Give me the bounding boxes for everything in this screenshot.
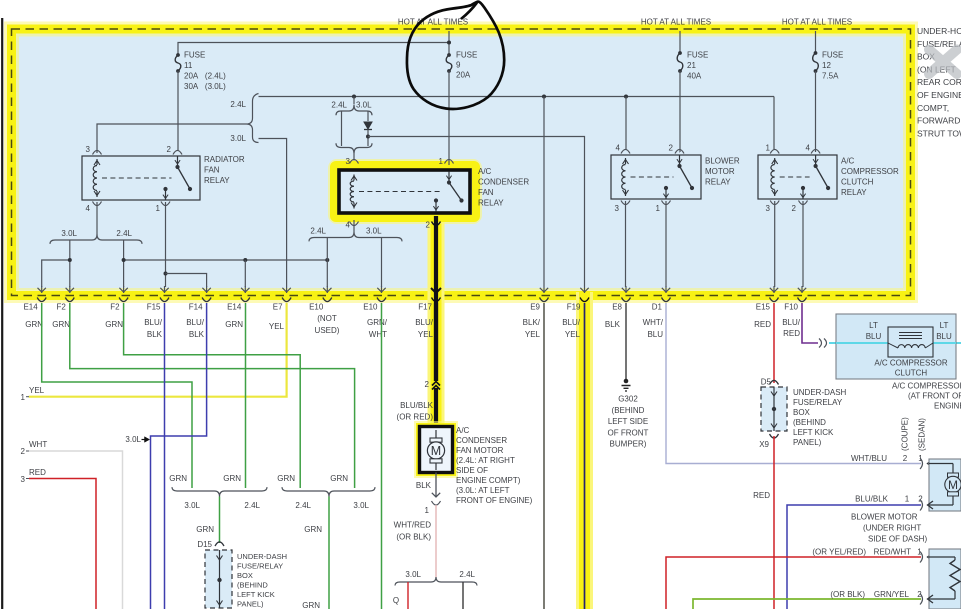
- svg-text:BLU: BLU: [647, 330, 663, 339]
- wire bus B: [124, 259, 328, 261]
- wire motor to pin 1: [435, 473, 437, 498]
- wire node3 red: [29, 479, 96, 609]
- svg-text:30A (3.0L): 30A (3.0L): [184, 82, 226, 91]
- close icon X: [929, 50, 957, 75]
- svg-text:(BEHIND: (BEHIND: [237, 581, 268, 590]
- svg-text:E7: E7: [273, 303, 283, 312]
- svg-text:BLK: BLK: [189, 330, 205, 339]
- svg-text:(BEHIND: (BEHIND: [612, 406, 645, 415]
- svg-text:LEFT SIDE: LEFT SIDE: [608, 417, 648, 426]
- svg-text:1: 1: [21, 393, 26, 402]
- svg-text:(3.0L: AT LEFT: (3.0L: AT LEFT: [456, 486, 510, 495]
- wire bus corner to compressor clutch relay pin 1: [773, 97, 775, 150]
- svg-text:(OR BLK): (OR BLK): [396, 533, 431, 542]
- svg-text:3.0L: 3.0L: [405, 570, 421, 579]
- svg-text:BLOWER: BLOWER: [705, 157, 740, 166]
- node junction E10a: [325, 258, 329, 262]
- wire brace2 green down: [328, 497, 330, 609]
- svg-text:UNDER-DASH: UNDER-DASH: [793, 388, 847, 397]
- svg-text:12: 12: [822, 61, 831, 70]
- svg-text:YEL: YEL: [269, 322, 285, 331]
- svg-text:3: 3: [21, 475, 26, 484]
- connector F10: [798, 298, 807, 302]
- svg-text:FUSE: FUSE: [822, 51, 843, 60]
- svg-text:BUMPER): BUMPER): [610, 440, 647, 449]
- connector F19: [580, 298, 589, 302]
- wire hot feed to fuse 12: [815, 31, 817, 53]
- svg-text:(COUPE): (COUPE): [901, 417, 910, 451]
- wire E7 yellow: [29, 303, 287, 397]
- svg-text:RELAY: RELAY: [478, 199, 504, 208]
- wire branch to F14: [166, 274, 207, 288]
- connector into blower motor 1: [920, 458, 923, 469]
- svg-text:D1: D1: [652, 303, 663, 312]
- svg-text:E14: E14: [23, 303, 38, 312]
- svg-text:(OR RED): (OR RED): [397, 413, 434, 422]
- A/C condenser fan motor highlight: [420, 427, 453, 473]
- svg-text:7.5A: 7.5A: [822, 72, 839, 81]
- svg-text:Q: Q: [393, 596, 399, 605]
- svg-text:BLK: BLK: [605, 320, 621, 329]
- connector F14: [202, 298, 211, 302]
- svg-text:GRN: GRN: [25, 320, 43, 329]
- wire D1 wht/blu: [666, 303, 921, 464]
- wire fuse 21 to blower relay pin 2: [679, 71, 681, 152]
- svg-text:GRN: GRN: [169, 474, 187, 483]
- wire E10 grn/wht: [381, 303, 383, 609]
- svg-text:GRN: GRN: [52, 320, 70, 329]
- svg-text:F2: F2: [56, 303, 66, 312]
- svg-text:RED: RED: [783, 329, 800, 338]
- svg-text:BLU/: BLU/: [415, 318, 434, 327]
- wire to motor: [434, 388, 438, 426]
- connector D1: [662, 298, 671, 302]
- arrow into border at E7: [286, 286, 288, 293]
- svg-text:(NOT: (NOT: [317, 314, 337, 323]
- svg-text:GRN: GRN: [196, 525, 214, 534]
- arrow into border at F15: [164, 286, 166, 293]
- connector pin 1: [432, 501, 441, 505]
- svg-text:ENGINE: ENGINE: [934, 402, 961, 411]
- connector X9: [770, 434, 779, 438]
- svg-text:1: 1: [156, 204, 161, 213]
- svg-text:E10: E10: [363, 303, 378, 312]
- svg-text:3: 3: [615, 204, 620, 213]
- svg-text:2: 2: [792, 204, 797, 213]
- fuse 21: [678, 51, 682, 55]
- svg-text:2.4L: 2.4L: [116, 229, 132, 238]
- under-hood fuse/relay box (blue region): [16, 34, 906, 291]
- svg-text:OF ENGINE: OF ENGINE: [917, 90, 961, 100]
- svg-text:GRN: GRN: [330, 474, 348, 483]
- svg-text:11: 11: [184, 61, 193, 70]
- svg-text:E15: E15: [756, 303, 771, 312]
- svg-text:FUSE/RELAY: FUSE/RELAY: [793, 398, 843, 407]
- node junction blower relay tap: [624, 95, 628, 99]
- svg-text:ENGINE COMPT): ENGINE COMPT): [456, 476, 521, 485]
- wire grn/yel to resistor: [693, 599, 921, 609]
- wire F2a green: [70, 303, 355, 488]
- A/C condenser fan relay highlight box: [334, 165, 476, 218]
- svg-text:3.0L: 3.0L: [61, 229, 77, 238]
- arrow into border at E10: [381, 286, 383, 293]
- svg-text:FORWARD OF: FORWARD OF: [917, 116, 961, 126]
- svg-text:YEL: YEL: [418, 330, 434, 339]
- wire 2.4L black drop: [462, 582, 464, 609]
- thick highlighted wire condenser pin 2 down: [434, 216, 438, 381]
- svg-text:BLK/: BLK/: [523, 318, 541, 327]
- svg-text:BLU/: BLU/: [186, 318, 205, 327]
- svg-text:2: 2: [903, 454, 908, 463]
- svg-text:3.0L: 3.0L: [125, 435, 141, 444]
- svg-text:2.4L: 2.4L: [331, 101, 347, 110]
- svg-text:2.4L: 2.4L: [230, 100, 246, 109]
- svg-text:A/C: A/C: [841, 157, 855, 166]
- wire E14a green: [42, 303, 192, 488]
- svg-text:9: 9: [456, 61, 461, 70]
- svg-text:GRN: GRN: [302, 601, 320, 609]
- svg-text:UNDER-DASH: UNDER-DASH: [237, 552, 287, 561]
- svg-text:SIDE OF: SIDE OF: [456, 466, 488, 475]
- A/C condenser fan relay: [339, 170, 470, 213]
- svg-text:LT: LT: [940, 321, 949, 330]
- svg-text:F14: F14: [189, 303, 203, 312]
- connector into blower motor 2: [920, 500, 923, 511]
- connector E8: [622, 298, 631, 302]
- wire fuse 11 to radiator fan relay pin 2: [177, 71, 179, 150]
- connector E7: [282, 298, 291, 302]
- svg-text:YEL: YEL: [565, 330, 581, 339]
- svg-text:2.4L: 2.4L: [459, 570, 475, 579]
- radiator fan relay: [82, 156, 200, 200]
- svg-text:BLU/: BLU/: [782, 318, 801, 327]
- blower motor box: [929, 459, 961, 511]
- svg-text:BLK: BLK: [147, 330, 163, 339]
- hand-drawn circle around fuse 9: [407, 2, 504, 109]
- svg-text:GRN: GRN: [105, 320, 123, 329]
- node junction E14b: [243, 258, 247, 262]
- svg-text:M: M: [431, 444, 441, 458]
- svg-text:BLOWER MOTOR: BLOWER MOTOR: [851, 513, 918, 522]
- svg-text:E8: E8: [612, 303, 622, 312]
- svg-text:(2.4L: AT RIGHT: (2.4L: AT RIGHT: [456, 456, 515, 465]
- svg-text:E14: E14: [227, 303, 242, 312]
- svg-text:BLU/: BLU/: [562, 318, 581, 327]
- svg-text:WHT/BLU: WHT/BLU: [851, 454, 887, 463]
- arrow into border at F17: [431, 288, 441, 293]
- blower resistor box: [929, 549, 961, 609]
- yellow highlight border of under-hood box: [12, 29, 911, 296]
- svg-text:RED/WHT: RED/WHT: [874, 548, 911, 557]
- svg-text:2: 2: [426, 221, 431, 230]
- svg-text:(SEDAN): (SEDAN): [918, 418, 927, 451]
- svg-text:A/C COMPRESSOR: A/C COMPRESSOR: [892, 382, 961, 391]
- svg-text:4: 4: [86, 204, 91, 213]
- svg-text:3.0L: 3.0L: [184, 501, 200, 510]
- node junction F2a: [68, 258, 72, 262]
- svg-text:FAN: FAN: [478, 188, 494, 197]
- svg-text:RED: RED: [754, 320, 771, 329]
- svg-text:2: 2: [918, 495, 923, 504]
- svg-text:4: 4: [806, 144, 811, 153]
- svg-text:3: 3: [86, 145, 91, 154]
- wire E9 drop: [543, 97, 545, 287]
- radiator output brace 3.0L/2.4L: [50, 235, 142, 244]
- svg-text:3: 3: [346, 157, 351, 166]
- fuse 12: [814, 51, 818, 55]
- svg-text:CLUTCH: CLUTCH: [895, 369, 928, 378]
- svg-text:BLU: BLU: [866, 332, 882, 341]
- svg-text:HOT AT ALL TIMES: HOT AT ALL TIMES: [641, 18, 711, 27]
- wire blower relay pin 4 drop: [625, 97, 627, 150]
- green merge brace 2: [282, 487, 375, 496]
- svg-text:GRN/: GRN/: [367, 318, 388, 327]
- D15 under-dash fuse/relay box: [205, 550, 232, 608]
- svg-text:1: 1: [425, 506, 430, 515]
- svg-text:FRONT OF ENGINE): FRONT OF ENGINE): [456, 496, 533, 505]
- motor ground split brace: [395, 577, 477, 586]
- svg-text:3.0L: 3.0L: [353, 501, 369, 510]
- wire fuse 12 to compressor relay pin 4: [815, 71, 817, 152]
- svg-text:LEFT KICK: LEFT KICK: [237, 590, 275, 599]
- svg-text:(OR BLK): (OR BLK): [830, 590, 865, 599]
- svg-text:E10: E10: [309, 303, 324, 312]
- engine-size split brace (2.4L/3.0L): [247, 94, 259, 143]
- wire E14b green: [245, 303, 247, 488]
- fuse 11: [176, 53, 180, 57]
- wire F10 blu/red purple: [802, 303, 818, 343]
- connector into resistor 1: [920, 552, 923, 563]
- arrow into border at D1: [665, 286, 667, 293]
- svg-text:BOX: BOX: [237, 571, 253, 580]
- arrow into border at E10: [326, 286, 328, 293]
- svg-text:D15: D15: [197, 540, 212, 549]
- svg-text:FUSE: FUSE: [687, 51, 708, 60]
- arrow into border at E9: [543, 286, 545, 293]
- svg-text:UNDER-HOOD: UNDER-HOOD: [917, 26, 961, 36]
- connector F15: [160, 298, 169, 302]
- svg-text:RELAY: RELAY: [841, 188, 867, 197]
- connector E14: [241, 298, 250, 302]
- fuse 9: [447, 53, 451, 57]
- svg-text:YEL: YEL: [29, 386, 45, 395]
- wire diode junction to F19: [368, 137, 585, 287]
- wire E14b drop: [244, 260, 246, 287]
- svg-text:3.0L: 3.0L: [356, 101, 372, 110]
- wire 2.4L branch to F2: [123, 240, 125, 287]
- node junction fuse9 top: [447, 41, 451, 45]
- wire branch to E10 (not used): [326, 238, 328, 261]
- svg-text:HOT AT ALL TIMES: HOT AT ALL TIMES: [782, 18, 852, 27]
- arrow into border at E14: [41, 286, 43, 293]
- svg-text:BLU/BLK: BLU/BLK: [855, 495, 889, 504]
- svg-text:X9: X9: [759, 440, 769, 449]
- arrow into border at F2: [69, 286, 71, 293]
- svg-text:BLK: BLK: [416, 481, 432, 490]
- wire F19 blu/yel: [584, 303, 586, 609]
- svg-text:1: 1: [905, 495, 910, 504]
- svg-text:2: 2: [425, 380, 430, 389]
- svg-text:(AT FRONT OF: (AT FRONT OF: [908, 392, 961, 401]
- svg-text:E9: E9: [530, 303, 540, 312]
- svg-text:RELAY: RELAY: [204, 176, 230, 185]
- svg-text:REAR CORNER: REAR CORNER: [917, 77, 961, 87]
- wire condenser pin 4 to brace: [353, 220, 355, 232]
- svg-text:GRN: GRN: [225, 320, 243, 329]
- arrow into border at E8: [625, 286, 627, 293]
- svg-text:GRN: GRN: [304, 525, 322, 534]
- svg-text:BLU/: BLU/: [144, 318, 163, 327]
- svg-text:(OR YEL/RED): (OR YEL/RED): [812, 548, 866, 557]
- connector E9: [540, 298, 549, 302]
- connector F17: [432, 298, 441, 302]
- wire E15 red lower: [773, 436, 775, 609]
- svg-text:GRN/YEL: GRN/YEL: [874, 590, 910, 599]
- wire lt blu to compressor clutch: [829, 342, 961, 344]
- wire 2.4L branch: [341, 111, 343, 146]
- green merge brace 1: [172, 487, 267, 496]
- node junction F15/F14 split: [164, 272, 168, 276]
- yellow highlight band on F17 circuit: [428, 216, 445, 428]
- svg-text:21: 21: [687, 61, 696, 70]
- svg-text:20A: 20A: [456, 71, 471, 80]
- wire F2b green: [124, 303, 301, 488]
- svg-text:FAN MOTOR: FAN MOTOR: [456, 446, 504, 455]
- svg-text:COMPRESSOR: COMPRESSOR: [841, 167, 899, 176]
- arrow into border at F2: [123, 286, 125, 293]
- svg-text:LEFT KICK: LEFT KICK: [793, 428, 834, 437]
- page left border: [1, 18, 3, 609]
- wire red/wht to resistor: [666, 557, 921, 609]
- connector E10: [377, 298, 386, 302]
- merge brace above condenser relay pin 3: [336, 143, 372, 153]
- connector F2: [119, 298, 128, 302]
- wire E15 red upper: [773, 303, 775, 383]
- svg-text:F17: F17: [418, 303, 432, 312]
- wire fuse 9 to condenser relay pin 1: [448, 71, 450, 165]
- svg-text:4: 4: [346, 221, 351, 230]
- ground G302: [624, 379, 629, 384]
- diode: [364, 122, 372, 129]
- svg-text:CONDENSER: CONDENSER: [478, 178, 529, 187]
- svg-text:1: 1: [656, 204, 661, 213]
- svg-text:PANEL): PANEL): [793, 438, 822, 447]
- connector into resistor 2: [920, 594, 923, 605]
- svg-text:A/C: A/C: [478, 167, 492, 176]
- svg-text:FUSE/RELAY: FUSE/RELAY: [237, 562, 283, 571]
- arrow into border at F14: [206, 286, 208, 293]
- A/C compressor clutch relay: [758, 155, 837, 199]
- svg-text:RED: RED: [753, 491, 770, 500]
- node junction at condenser brace: [352, 95, 356, 99]
- connector F2: [65, 298, 74, 302]
- svg-text:RADIATOR: RADIATOR: [204, 155, 245, 164]
- svg-text:3.0L: 3.0L: [230, 134, 246, 143]
- wire node2 white: [29, 451, 123, 609]
- wire compressor pin 3 to E15: [774, 201, 776, 287]
- node diode output junction: [366, 135, 370, 139]
- arrow into border at E14: [244, 286, 246, 293]
- svg-text:LT: LT: [869, 321, 878, 330]
- svg-text:1: 1: [439, 157, 444, 166]
- wire hot feed to fuse 21: [679, 31, 681, 53]
- blower motor relay: [611, 155, 701, 199]
- wire blu/blk to blower motor: [787, 505, 921, 609]
- svg-text:A/C COMPRESSOR: A/C COMPRESSOR: [874, 359, 948, 368]
- svg-text:G302: G302: [618, 395, 638, 404]
- wire 3.0L branch to F2: [69, 240, 71, 287]
- svg-text:STRUT TOWER): STRUT TOWER): [917, 128, 961, 138]
- svg-text:3.0L: 3.0L: [366, 227, 382, 236]
- node junction E9 tap: [542, 95, 546, 99]
- wire bus to E14 left: [42, 260, 70, 287]
- wire 3.0L branch to E7: [259, 139, 287, 287]
- svg-text:F19: F19: [567, 303, 581, 312]
- A/C compressor clutch box: [836, 314, 956, 379]
- svg-text:BOX: BOX: [793, 408, 811, 417]
- wire-to-wire connector: [819, 339, 822, 348]
- A/C condenser fan motor: [420, 427, 453, 473]
- clutch coil: [888, 327, 933, 357]
- wire F17 blu/yel thick: [434, 303, 438, 381]
- wire F15 blu/blk: [164, 303, 166, 609]
- svg-text:WHT/: WHT/: [643, 318, 664, 327]
- svg-text:F15: F15: [147, 303, 161, 312]
- connector E15: [770, 298, 779, 302]
- svg-text:RED: RED: [29, 468, 46, 477]
- condenser output brace 2.4L/3.0L: [309, 232, 402, 241]
- svg-text:2: 2: [21, 447, 26, 456]
- svg-text:FAN: FAN: [204, 166, 220, 175]
- svg-text:FUSE: FUSE: [184, 51, 205, 60]
- wire fuse 11 feed: [178, 43, 449, 56]
- svg-text:2: 2: [167, 145, 172, 154]
- wire branch to E10 grn/wht: [381, 238, 383, 288]
- svg-text:OF FRONT: OF FRONT: [608, 428, 649, 437]
- resistor: [950, 560, 960, 591]
- svg-text:BLU: BLU: [936, 332, 952, 341]
- svg-text:CLUTCH: CLUTCH: [841, 178, 874, 187]
- svg-text:F10: F10: [784, 303, 798, 312]
- svg-text:F2: F2: [110, 303, 120, 312]
- svg-text:COMPT,: COMPT,: [917, 103, 949, 113]
- wire hot feed to fuse 9: [448, 31, 450, 55]
- connector pin 2 of fan motor: [432, 382, 440, 386]
- svg-text:HOT AT ALL TIMES: HOT AT ALL TIMES: [398, 18, 468, 27]
- svg-text:GRN: GRN: [277, 474, 295, 483]
- wire compressor pin 2 to F10: [802, 201, 804, 287]
- svg-text:D5: D5: [761, 378, 772, 387]
- wire 2.4L bus to relays: [259, 96, 775, 98]
- connector E14: [37, 298, 46, 302]
- svg-text:(BEHIND: (BEHIND: [793, 418, 826, 427]
- wire wht/red: [435, 505, 437, 577]
- D5 under-dash fuse/relay box: [761, 387, 787, 431]
- node junction F2b: [122, 258, 126, 262]
- svg-text:4: 4: [616, 144, 621, 153]
- wire brace1 to D15: [219, 497, 221, 544]
- wire blower pin 1 to D1: [665, 201, 667, 287]
- svg-text:SIDE OF DASH): SIDE OF DASH): [868, 535, 927, 544]
- svg-text:WHT: WHT: [369, 330, 387, 339]
- wire 3.0L red drop: [407, 582, 409, 609]
- wire 3.0L branch to diode: [367, 111, 369, 121]
- svg-text:(UNDER RIGHT: (UNDER RIGHT: [863, 524, 921, 533]
- svg-text:CONDENSER: CONDENSER: [456, 436, 507, 445]
- svg-text:WHT/RED: WHT/RED: [394, 521, 432, 530]
- svg-text:FUSE: FUSE: [456, 51, 477, 60]
- wire F14 blu/blk: [151, 303, 207, 609]
